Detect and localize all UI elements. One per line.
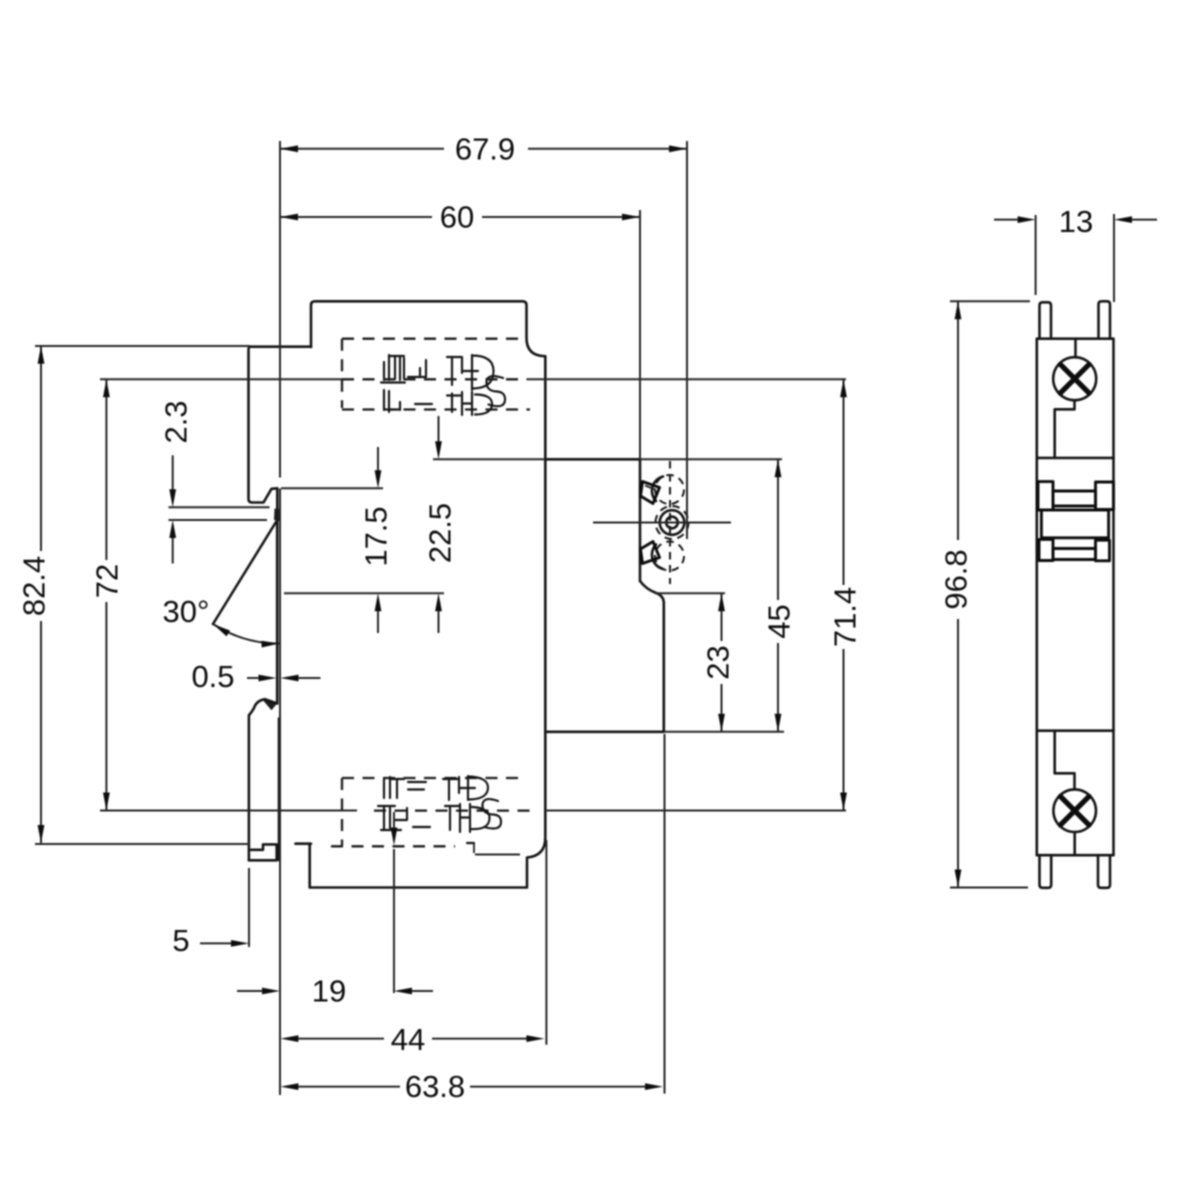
arrowheads [280,145,298,152]
svg-text:19: 19 [312,974,346,1009]
toggle dashed centre vertical [669,461,671,584]
rail channel inner face [278,719,281,861]
rail channel face [276,521,279,704]
side view: bottom screw head [1053,789,1096,832]
right protrusion right edge upper [639,459,642,581]
dimension 44 [298,1038,385,1040]
extension line y=488.3 (17.5 top) [281,487,383,489]
toggle dashed knob circle lower [655,542,684,571]
dimension 45 [777,459,779,600]
svg-text:13: 13 [1059,204,1093,239]
side view: toggle handle bar lower [1053,549,1096,560]
toggle dashed knob circle upper [655,475,684,504]
bottom rail hook tip (filled) [263,700,277,710]
toggle pivot inner circle [666,517,678,529]
toggle solid arc lower-left [652,545,663,570]
dimension 2.3 [172,455,174,490]
side view: bottom centre parting line [1073,832,1076,855]
svg-text:17.5: 17.5 [359,506,394,566]
svg-text:82.4: 82.4 [17,556,52,616]
toggle solid arc upper-left [652,477,663,502]
toggle wedge lower [641,542,660,564]
front view: left edge upper + DIN-rail top hook [249,347,278,510]
svg-text:67.9: 67.9 [455,132,515,167]
dimension 30 degrees: chamfer line [213,522,276,624]
extension vertical x=394 (19 right) [393,812,395,829]
front view: top-left step edge [250,345,311,348]
svg-text:30°: 30° [163,594,210,629]
side view: toggle middle block [1041,510,1108,538]
right protrusion top edge y=459.3 (body part) [545,458,640,461]
dimension 82.4 [40,346,42,551]
top terminal box (dashed) [342,338,527,340]
toggle pivot outer circle [660,510,685,535]
extension line x=640 (60 right) [639,210,641,459]
dimension 23 [721,593,723,641]
side view: top-left pin [1040,302,1052,338]
side view: toggle handle bar upper [1053,491,1096,506]
extension line y=593.3 right (23 top) [655,592,725,594]
svg-text:0.5: 0.5 [191,659,234,694]
dimension 71.4 [843,379,845,585]
extension verticals of side view 13 [1035,215,1037,295]
side view: top screw head [1053,357,1096,400]
right protrusion bottom edge [545,730,664,733]
DIN hook lip (filled) [274,509,281,522]
side view: upper section line [1037,457,1114,460]
extension lines of side view 96.8 [950,300,1030,302]
datum extension line x=280 [279,141,281,478]
dimension 72 [105,379,107,560]
side view: top-right pin [1099,301,1111,338]
svg-text:2.3: 2.3 [159,400,194,443]
side view: toggle left tab lower [1039,539,1053,560]
svg-text:22.5: 22.5 [423,503,458,563]
extension line y=346 left (82.4 top) [35,345,250,347]
extension lines of 2.3 [169,506,270,508]
side view: bottom-right pin [1098,855,1110,888]
svg-text:72: 72 [90,564,125,598]
svg-text:5: 5 [172,923,189,958]
svg-text:45: 45 [762,604,797,638]
bottom cap inner step [473,844,475,854]
svg-text:44: 44 [391,1022,425,1057]
front view: top cap outline [311,301,545,356]
dimension 22.5 [438,416,440,442]
side view: bottom-left pin [1040,855,1052,888]
toggle wedge upper [641,482,660,504]
side view: top centre parting line [1074,339,1077,358]
svg-text:96.8: 96.8 [939,549,974,609]
dimension 0.5 [247,677,260,679]
extension vertical x=546.4 (44 right) [545,840,547,1045]
terminal symbols bottom-right group [443,776,501,843]
dimension 60 [280,216,432,218]
terminal symbols top-left group [381,355,432,412]
extension line y=593.3 (17.5/22.5 bottom) [284,592,444,594]
extension line x=687 (67.9 right) [686,141,688,539]
terminal symbols bottom-left group [378,777,430,830]
dimension 96.8 [957,301,959,540]
toggle horizontal centreline [593,522,731,524]
front view: right edge of centre column (top part) + bottom cap [310,356,546,887]
svg-text:60: 60 [440,200,474,235]
svg-text:63.8: 63.8 [405,1069,465,1104]
jog between toggle housing and lower right edge [640,581,664,732]
side view: step below top screw [1055,400,1075,458]
svg-text:23: 23 [701,645,736,679]
DIN clip foot [249,844,277,860]
side view: step above bottom screw [1055,731,1075,790]
extension line y=843.7 left (82.4 bottom) [35,843,250,845]
extension line y=459.2 (22.5 top / 45 top) [433,458,545,460]
bottom rail hook outline + left edge lower [249,699,277,860]
extension vertical x=249 (5 left) [248,868,250,947]
side view: toggle right tab lower [1096,540,1110,561]
side view: lower section line [1037,729,1114,732]
side view: toggle left tab upper [1038,482,1053,510]
dimension 67.9 [280,148,444,150]
toggle dashed mid circle [656,506,689,539]
bottom terminal box (dashed) [342,777,526,779]
dimension 19 [237,990,263,992]
front view: body bottom edge (left of bottom cap) [296,842,312,845]
extension line y=731.8 right (23/45 bottom) [664,731,784,733]
side view: toggle right tab upper [1096,482,1114,510]
terminal symbols top-right group [447,355,505,415]
extension vertical x=664.5 (63.8 right) [664,734,666,1094]
dimension 5 [200,942,232,944]
dimension 63.8 [298,1086,401,1088]
svg-text:71.4: 71.4 [828,587,863,647]
extension line y=810.5 (72 / 71.4 bottom) [100,810,357,812]
dimension 17.5 [377,447,379,471]
extension line y=379.3 (72 / 71.4 top) [100,378,342,380]
dimension 13 [994,219,1019,221]
side view: body rectangle [1037,339,1114,856]
dimension 30 degrees: arc [213,624,280,644]
